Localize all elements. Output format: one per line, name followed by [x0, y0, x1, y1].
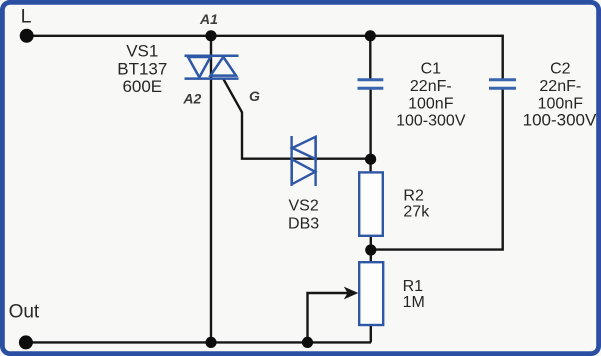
wire R1 bottom to bottom bus [370, 325, 372, 343]
svg-text:1M: 1M [403, 294, 425, 311]
svg-text:22nF-: 22nF- [410, 78, 452, 95]
svg-text:L: L [21, 6, 32, 28]
svg-text:VS1: VS1 [126, 41, 158, 60]
svg-text:22nF-: 22nF- [539, 78, 581, 95]
wire main vertical through triac [210, 36, 212, 343]
svg-text:600E: 600E [122, 77, 162, 96]
terminal L [20, 29, 34, 43]
svg-text:G: G [249, 88, 260, 104]
junction top of C1 [365, 30, 376, 41]
wiper arrowhead [344, 287, 359, 300]
junction gate node above R2 [365, 154, 376, 165]
label C2 values [523, 61, 597, 130]
svg-text:A2: A2 [182, 91, 201, 107]
svg-text:C1: C1 [421, 61, 442, 78]
label R2 27k [403, 187, 430, 220]
junction bottom bus at wiper wire [302, 337, 313, 348]
svg-text:DB3: DB3 [288, 216, 319, 233]
svg-text:C2: C2 [550, 61, 571, 78]
svg-text:A1: A1 [199, 11, 218, 27]
svg-text:27k: 27k [403, 203, 430, 220]
triac VS1 [185, 56, 239, 79]
diac VS2 [292, 136, 316, 186]
capacitor C1 [358, 80, 384, 89]
svg-text:100-300V: 100-300V [396, 113, 466, 130]
wire C1 bottom to R2 top [369, 89, 371, 173]
wire top bus L to corner [27, 35, 503, 37]
wire gate from triac to diac to node [224, 79, 371, 159]
svg-text:R1: R1 [403, 278, 424, 295]
terminal Out [19, 335, 33, 349]
label VS2 DB3 [288, 198, 319, 233]
svg-text:Out: Out [9, 301, 40, 322]
junction between R2 and R1 [365, 244, 376, 255]
svg-text:VS2: VS2 [288, 198, 318, 215]
svg-text:R2: R2 [403, 187, 424, 204]
wire bottom bus Out to R1 [26, 341, 371, 343]
wire right drop to C2 top plate [502, 35, 504, 79]
resistor R2 [359, 172, 383, 235]
capacitor C2 [489, 80, 516, 89]
wire C1 top feed [369, 36, 371, 79]
junction bottom bus at triac wire [205, 337, 216, 348]
svg-text:100-300V: 100-300V [523, 111, 597, 130]
wire R2 bottom to R1 top [370, 236, 372, 263]
label VS1 BT137 600E [117, 41, 167, 96]
wire potentiometer wiper [308, 293, 349, 342]
node A1 junction [205, 30, 216, 41]
label R1 1M [403, 278, 425, 311]
svg-text:100nF: 100nF [408, 95, 454, 112]
label C1 values [396, 61, 466, 130]
wire C2 bottom plate down and left to R2 bottom node [371, 89, 503, 250]
svg-text:BT137: BT137 [117, 60, 167, 79]
potentiometer R1 [359, 262, 383, 325]
